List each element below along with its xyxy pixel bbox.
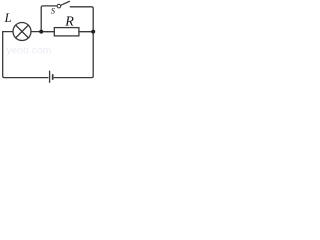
svg-text:S: S (51, 7, 55, 16)
svg-text:L: L (4, 11, 12, 25)
svg-text:R: R (64, 15, 74, 30)
svg-text:yeoo.com: yeoo.com (6, 46, 51, 57)
